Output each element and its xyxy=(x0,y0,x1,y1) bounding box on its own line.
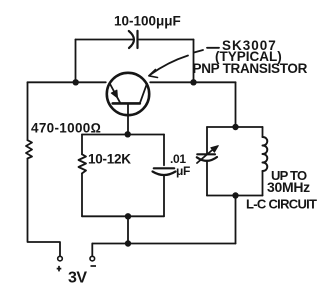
leader dash 2 xyxy=(194,50,203,53)
inductor L1 coil (4 loops) xyxy=(263,137,268,171)
capacitor C2 .01uF straight plate xyxy=(154,167,174,169)
middle box top wire xyxy=(82,134,164,136)
svg-text:L-C CIRCUIT: L-C CIRCUIT xyxy=(246,197,317,212)
LC tank right side upper xyxy=(262,127,264,137)
LC tank right side lower xyxy=(262,171,264,196)
leader dash from label xyxy=(207,47,219,49)
junction node emitter/top-left xyxy=(73,79,79,85)
capacitor C1 10-100uuF curved plate xyxy=(129,31,134,48)
middle box left side upper xyxy=(81,135,83,155)
terminal - open circle xyxy=(90,256,95,261)
transistor Q1 collector lead xyxy=(140,84,147,104)
svg-text:10-100μμF: 10-100μμF xyxy=(114,13,181,28)
LC tank box top wire xyxy=(207,126,263,128)
svg-text:30MHz: 30MHz xyxy=(267,179,310,195)
resistor R2 10-12K zigzag xyxy=(79,154,87,173)
middle box left side lower xyxy=(81,173,83,216)
junction node tank bottom xyxy=(232,192,238,198)
wire collector drop to tank top xyxy=(235,82,237,127)
transistor Q1 emitter arrowhead (PNP, points to base) xyxy=(111,90,117,98)
svg-text:470-1000Ω: 470-1000Ω xyxy=(31,121,101,136)
polarity symbol + xyxy=(57,266,62,272)
variable capacitor C3 top plate xyxy=(197,153,215,155)
transistor Q1 base lead down xyxy=(127,103,129,134)
wire C1 to top-right corner xyxy=(139,39,194,41)
wire left column lower segment to + terminal xyxy=(28,159,61,257)
LC tank bottom wire xyxy=(207,195,263,197)
wire tank bottom drop to rail xyxy=(235,196,237,244)
wire emitter rail horizontal xyxy=(28,81,106,83)
polarity symbol - xyxy=(91,265,97,267)
svg-text:PNP TRANSISTOR: PNP TRANSISTOR xyxy=(193,61,308,76)
junction node middle box bottom xyxy=(125,213,131,219)
capacitor C1 straight plate xyxy=(136,31,138,48)
wire collector horizontal xyxy=(150,81,235,83)
variable capacitor C3 curved plate xyxy=(197,157,217,161)
variable capacitor C3 arrow shaft xyxy=(197,149,214,164)
svg-text:10-12K: 10-12K xyxy=(88,152,131,167)
wire middle box bottom to rail xyxy=(127,216,129,243)
variable capacitor C3 arrowhead xyxy=(211,146,219,153)
junction node bottom rail xyxy=(125,240,131,246)
leader curve to transistor xyxy=(151,56,189,75)
capacitor C2 curved plate xyxy=(153,172,176,176)
terminal + open circle xyxy=(58,256,63,261)
middle box right side lower xyxy=(163,176,165,216)
middle box bottom wire xyxy=(82,215,164,217)
LC tank left side upper xyxy=(206,127,208,154)
transistor Q1 circle xyxy=(107,73,149,115)
junction node tank top xyxy=(232,124,238,130)
middle box right side upper xyxy=(163,135,165,166)
wire - terminal up to bottom rail xyxy=(91,244,93,257)
svg-text:μF: μF xyxy=(176,164,190,178)
wire top-left vertical (x=75.5) xyxy=(75,40,77,83)
wire vertical drop from top wire to collector node xyxy=(193,40,195,83)
LC tank left side lower xyxy=(206,161,208,196)
resistor R1 470-1000 ohm zigzag xyxy=(26,140,32,158)
wire top-left horizontal to C1 xyxy=(76,39,133,41)
wire left column upper segment xyxy=(27,82,29,140)
transistor Q1 emitter lead xyxy=(110,83,121,103)
transistor Q1 base bar xyxy=(113,102,140,105)
wire bottom rail xyxy=(92,243,235,245)
junction node collector/C1 xyxy=(190,79,196,85)
leader arrowhead xyxy=(149,70,158,78)
junction node base/middle box top xyxy=(125,131,131,137)
svg-text:3V: 3V xyxy=(68,270,87,287)
